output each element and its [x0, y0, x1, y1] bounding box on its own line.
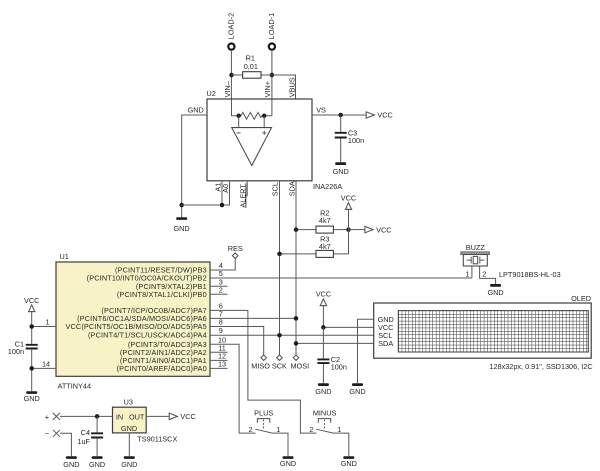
svg-text:LPT9018BS-HL-03: LPT9018BS-HL-03 — [499, 270, 561, 279]
svg-text:GND: GND — [280, 459, 296, 468]
svg-text:U2: U2 — [207, 89, 216, 98]
U2 internal shunt wiring — [232, 100, 272, 116]
svg-text:U3: U3 — [124, 397, 133, 406]
wire LOAD-2 to VIN- pin — [230, 50, 232, 99]
svg-text:GND: GND — [341, 459, 357, 468]
svg-text:INA226A: INA226A — [313, 182, 342, 191]
wire minus to ground — [60, 433, 72, 456]
svg-text:TS9011SCX: TS9011SCX — [137, 435, 177, 444]
regulator U3 body — [113, 397, 147, 433]
svg-text:A0: A0 — [221, 184, 230, 193]
svg-text:VIN+: VIN+ — [263, 81, 272, 97]
svg-text:RES: RES — [228, 244, 243, 253]
U2 pin A0 wire — [182, 181, 230, 205]
U2 op-amp input drops — [239, 116, 265, 128]
ground below OLED — [349, 383, 365, 396]
op-amp plus sign — [262, 131, 266, 135]
svg-text:BUZZ: BUZZ — [466, 243, 486, 252]
junction pin1/VCC — [29, 324, 34, 329]
buzzer pin 1 wire — [471, 266, 473, 278]
svg-text:128x32px, 0.91", SSD1306, I2C: 128x32px, 0.91", SSD1306, I2C — [489, 362, 592, 371]
junction R2/SDA — [294, 227, 299, 232]
svg-text:GND: GND — [349, 387, 365, 396]
VCC arrow right of pullups — [349, 225, 392, 234]
svg-text:GND: GND — [121, 460, 137, 469]
U2 internal shunt resistor zigzag — [241, 112, 262, 119]
terminal LOAD-2 — [227, 13, 236, 50]
port MISO — [251, 355, 270, 370]
buzzer BUZZ — [461, 243, 490, 266]
svg-text:U1: U1 — [60, 252, 69, 261]
ground under PLUS — [280, 456, 296, 468]
junction VS/C3 — [338, 113, 343, 118]
svg-text:VCC: VCC — [377, 111, 392, 120]
svg-text:2: 2 — [309, 425, 313, 434]
port RES — [228, 244, 243, 258]
svg-text:2: 2 — [219, 285, 223, 294]
ground under C1 — [24, 391, 40, 403]
svg-text:GND: GND — [173, 224, 189, 233]
junction VCC/C2/OLED — [321, 325, 326, 330]
ground under MINUS — [341, 456, 357, 468]
svg-text:PLUS: PLUS — [254, 408, 273, 417]
svg-text:MISO: MISO — [251, 361, 270, 370]
OLED module box — [374, 303, 592, 358]
svg-text:VS: VS — [316, 106, 326, 115]
OLED display area grid — [398, 311, 588, 352]
junction R2/R3/VCC — [346, 227, 351, 232]
svg-text:LOAD-2: LOAD-2 — [227, 13, 236, 39]
battery plus input — [45, 412, 60, 421]
ground under C4 — [89, 456, 105, 469]
U1 pin 1 VCC wire — [32, 326, 56, 328]
svg-text:9: 9 — [219, 326, 223, 335]
svg-text:SDA: SDA — [378, 339, 393, 348]
ground under U3 — [121, 456, 137, 469]
capacitor C4 1uF — [77, 416, 103, 456]
OLED GND wire — [358, 319, 374, 383]
svg-text:13: 13 — [218, 359, 226, 368]
VCC symbol above C2 — [316, 290, 331, 328]
battery minus input — [45, 429, 60, 438]
svg-text:OLED: OLED — [571, 294, 591, 303]
wire SDA net vertical from U2 to MOSI port — [295, 181, 297, 355]
U2 ALERT pin stub — [246, 181, 248, 197]
capacitor C3 100n — [335, 115, 364, 162]
svg-text:LOAD-1: LOAD-1 — [267, 13, 276, 39]
svg-text:1uF: 1uF — [77, 437, 90, 446]
U1 pin 8 wire to MISO port — [210, 327, 264, 356]
svg-text:1: 1 — [465, 270, 469, 279]
wire VIN+ to VBUS pin — [272, 75, 296, 100]
MINUS to ground wire — [333, 433, 349, 456]
pushbutton MINUS — [309, 408, 341, 434]
U2 internal junction right — [262, 114, 267, 119]
buzzer pin 2 wire to ground — [480, 266, 496, 284]
capacitor C2 100n — [317, 327, 347, 383]
U1 pin 12 stub — [210, 359, 228, 361]
svg-text:GND: GND — [89, 460, 105, 469]
wire VCC to C1 — [31, 312, 33, 344]
wire C1 to ground — [31, 349, 33, 391]
svg-text:SDA: SDA — [288, 181, 297, 196]
wire SCL net vertical from U2 to SCK port — [279, 181, 281, 355]
U2 internal junction left — [236, 114, 241, 119]
capacitor C1 100n — [8, 340, 38, 357]
svg-text:0,01: 0,01 — [244, 62, 258, 71]
U1 pin 5 wire to buzzer pin 1 — [210, 277, 472, 279]
U1 pin 6 wire to MINUS button — [210, 310, 316, 433]
terminal LOAD-1 — [267, 13, 276, 50]
U1 pin 14 GND wire — [32, 367, 56, 369]
U3 OUT wire — [146, 415, 169, 417]
OLED SDA wire — [296, 342, 374, 344]
svg-text:(PCINT4/T1/SCL/USCK/ADC4)PA4: (PCINT4/T1/SCL/USCK/ADC4)PA4 — [88, 331, 207, 340]
U1 pin 3 stub — [210, 285, 228, 287]
mcu U1 ATTINY44 body — [56, 262, 210, 376]
VCC symbol above C1 — [24, 296, 39, 312]
svg-text:+: + — [45, 412, 49, 421]
svg-text:GND: GND — [24, 394, 40, 403]
svg-text:VBUS: VBUS — [287, 77, 296, 97]
svg-text:100n: 100n — [348, 136, 364, 145]
VCC arrow at VS — [366, 111, 393, 120]
junction VIN+ node — [270, 73, 275, 78]
op-amp U2 INA226A body — [207, 99, 312, 181]
svg-text:GND: GND — [188, 106, 204, 115]
svg-text:1: 1 — [45, 318, 49, 327]
svg-text:1: 1 — [276, 425, 280, 434]
U2 op-amp triangle — [232, 128, 272, 166]
pushbutton PLUS — [248, 408, 280, 434]
junction pin9/SCL — [277, 333, 282, 338]
svg-text:GND: GND — [63, 460, 79, 469]
junction pin14 — [29, 366, 34, 371]
svg-text:100n: 100n — [331, 363, 347, 372]
junction VIN- node — [229, 73, 234, 78]
svg-text:GND: GND — [121, 424, 137, 433]
junction A1/A0 — [220, 203, 225, 208]
svg-text:MOSI: MOSI — [290, 361, 309, 370]
U3 GND pin wire — [128, 433, 130, 456]
U2 pin A1 wire — [221, 181, 223, 205]
svg-text:VCC: VCC — [24, 296, 39, 305]
svg-text:ATTINY44: ATTINY44 — [58, 382, 92, 391]
ground under C3 — [333, 162, 349, 176]
svg-text:SCL: SCL — [270, 182, 279, 196]
ground under U2 — [173, 217, 189, 233]
resistor R1 0,01 shunt — [232, 53, 272, 78]
svg-text:VCC: VCC — [376, 225, 391, 234]
U1 pin 4 wire to RES — [210, 258, 235, 270]
svg-text:GND: GND — [333, 167, 349, 176]
wire LOAD-1 to VIN+ pin — [271, 50, 273, 99]
svg-text:4k7: 4k7 — [319, 242, 331, 251]
svg-text:VCC: VCC — [180, 412, 195, 421]
svg-text:VCC: VCC — [316, 290, 331, 299]
svg-text:8: 8 — [219, 318, 223, 327]
junction SDA/OLED — [294, 341, 299, 346]
svg-text:4k7: 4k7 — [319, 216, 331, 225]
svg-text:MINUS: MINUS — [313, 408, 337, 417]
junction C4 input — [95, 414, 100, 419]
junction GND/A1/A0 — [179, 203, 184, 208]
U1 pin 10 wire to PLUS button — [210, 344, 256, 433]
U1 pin 2 stub — [210, 293, 228, 295]
PLUS to ground wire — [272, 433, 288, 456]
U2 GND pin wire — [182, 115, 207, 217]
svg-text:−: − — [45, 429, 49, 438]
svg-text:SCK: SCK — [272, 361, 287, 370]
U1 pin 11 stub — [210, 351, 228, 353]
junction R3/SCL — [277, 252, 282, 257]
wire plus to U3 IN — [60, 415, 113, 417]
VCC symbol above pullups — [341, 193, 356, 229]
svg-text:(PCINT8/XTAL1/CLKI)PB0: (PCINT8/XTAL1/CLKI)PB0 — [117, 290, 207, 299]
svg-text:GND: GND — [487, 288, 503, 297]
U1 pin 13 stub — [210, 367, 228, 369]
svg-text:VCC(PCINT5/OC1B/MISO/DO/ADC5)P: VCC(PCINT5/OC1B/MISO/DO/ADC5)PA5 — [65, 322, 206, 331]
U2 VS pin wire — [312, 114, 366, 116]
port MOSI — [290, 355, 309, 370]
U1 pin 7 wire to SDA net — [210, 317, 296, 319]
svg-text:C4: C4 — [81, 428, 90, 437]
resistor R2 4k7 — [296, 209, 349, 234]
VCC arrow at U3 output — [169, 412, 196, 421]
ground at minus input — [63, 456, 79, 469]
ground under buzzer — [487, 284, 503, 297]
port SCK — [272, 355, 287, 370]
svg-text:1: 1 — [337, 425, 341, 434]
OLED VCC wire — [323, 326, 373, 328]
svg-text:14: 14 — [42, 359, 50, 368]
op-amp minus sign — [237, 132, 241, 134]
svg-text:GND: GND — [315, 387, 331, 396]
U1 pin 9 SCL wire to OLED — [210, 334, 374, 336]
svg-text:(PCINT0/AREF/ADC0)PA0: (PCINT0/AREF/ADC0)PA0 — [117, 364, 207, 373]
svg-text:OUT: OUT — [129, 412, 145, 421]
junction pin7/SDA — [294, 316, 299, 321]
resistor R3 4k7 — [280, 230, 349, 258]
svg-text:VIN–: VIN– — [223, 80, 232, 97]
svg-text:100n: 100n — [8, 347, 24, 356]
ground under C2 — [315, 383, 331, 396]
svg-text:2: 2 — [248, 425, 252, 434]
svg-text:IN: IN — [116, 412, 123, 421]
U2 pin label ALERT with overline — [238, 183, 247, 207]
svg-text:VCC: VCC — [341, 193, 356, 202]
svg-text:2: 2 — [482, 270, 486, 279]
